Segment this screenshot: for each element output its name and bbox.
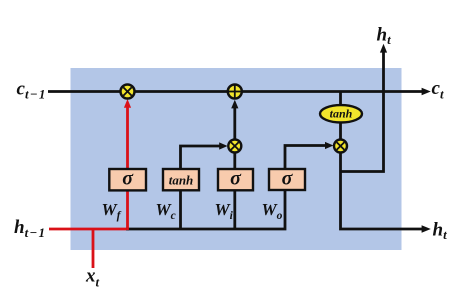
- svg-text:σ: σ: [122, 168, 134, 190]
- svg-text:ct: ct: [432, 78, 444, 102]
- wire: c-line horizontal (c_{t-1} to c_t): [48, 90, 423, 93]
- wire: forget-gate red vertical (through sigma box up to multiply): [126, 105, 129, 230]
- arrowhead h_t top: [380, 44, 387, 53]
- wire: output multiply down then right to h_t (h-line right segment): [341, 151, 424, 229]
- add node on c-line: [228, 85, 242, 99]
- gate sigma W_o box: [269, 168, 305, 191]
- svg-text:σ: σ: [282, 168, 294, 190]
- wire: h-line black segment (ends turning up into W_o gate): [128, 189, 286, 230]
- wire: tanh ellipse down to output multiply: [339, 122, 342, 141]
- arrowhead into middle multiply: [219, 142, 227, 149]
- svg-text:ct−1: ct−1: [17, 79, 47, 102]
- svg-text:tanh: tanh: [330, 107, 353, 121]
- wire: h-line red segment from h_{t-1}: [49, 228, 129, 231]
- arrowhead h_t right: [422, 225, 431, 232]
- cell body (blue rectangle): [71, 68, 402, 250]
- gate tanh W_c box: [163, 169, 199, 190]
- wire: W_c gate lower connector: [179, 189, 182, 229]
- arrowhead into add node: [231, 100, 238, 109]
- svg-text:tanh: tanh: [169, 172, 194, 187]
- svg-text:xt: xt: [85, 266, 100, 289]
- svg-text:ht: ht: [377, 24, 392, 47]
- wire: c-line down to tanh ellipse: [339, 92, 342, 108]
- gate sigma W_i box: [218, 168, 253, 191]
- middle multiply node (input gate): [228, 140, 241, 153]
- wire: W_o gate output (up then right into output multiply): [285, 146, 327, 171]
- wire: x_t vertical red: [92, 229, 95, 268]
- gate sigma W_f box: [109, 168, 146, 191]
- wire: W_i gate lower connector: [233, 189, 236, 229]
- arrowhead red into multiply node: [124, 99, 131, 108]
- svg-text:ht−1: ht−1: [14, 217, 46, 240]
- wire: W_i gate output up to multiply: [233, 150, 236, 170]
- wire: middle multiply up to add node: [233, 106, 236, 141]
- svg-text:ht: ht: [433, 219, 448, 242]
- wire: branch to h_t top (right then up): [341, 51, 384, 172]
- multiply node on c-line (forget): [121, 85, 135, 99]
- output multiply node: [334, 140, 347, 153]
- wire: W_c gate output (up then right into multiply): [181, 146, 222, 170]
- arrowhead c_t: [422, 88, 431, 95]
- tanh ellipse: [320, 105, 362, 122]
- arrowhead into output multiply: [325, 142, 333, 149]
- svg-text:σ: σ: [230, 168, 242, 190]
